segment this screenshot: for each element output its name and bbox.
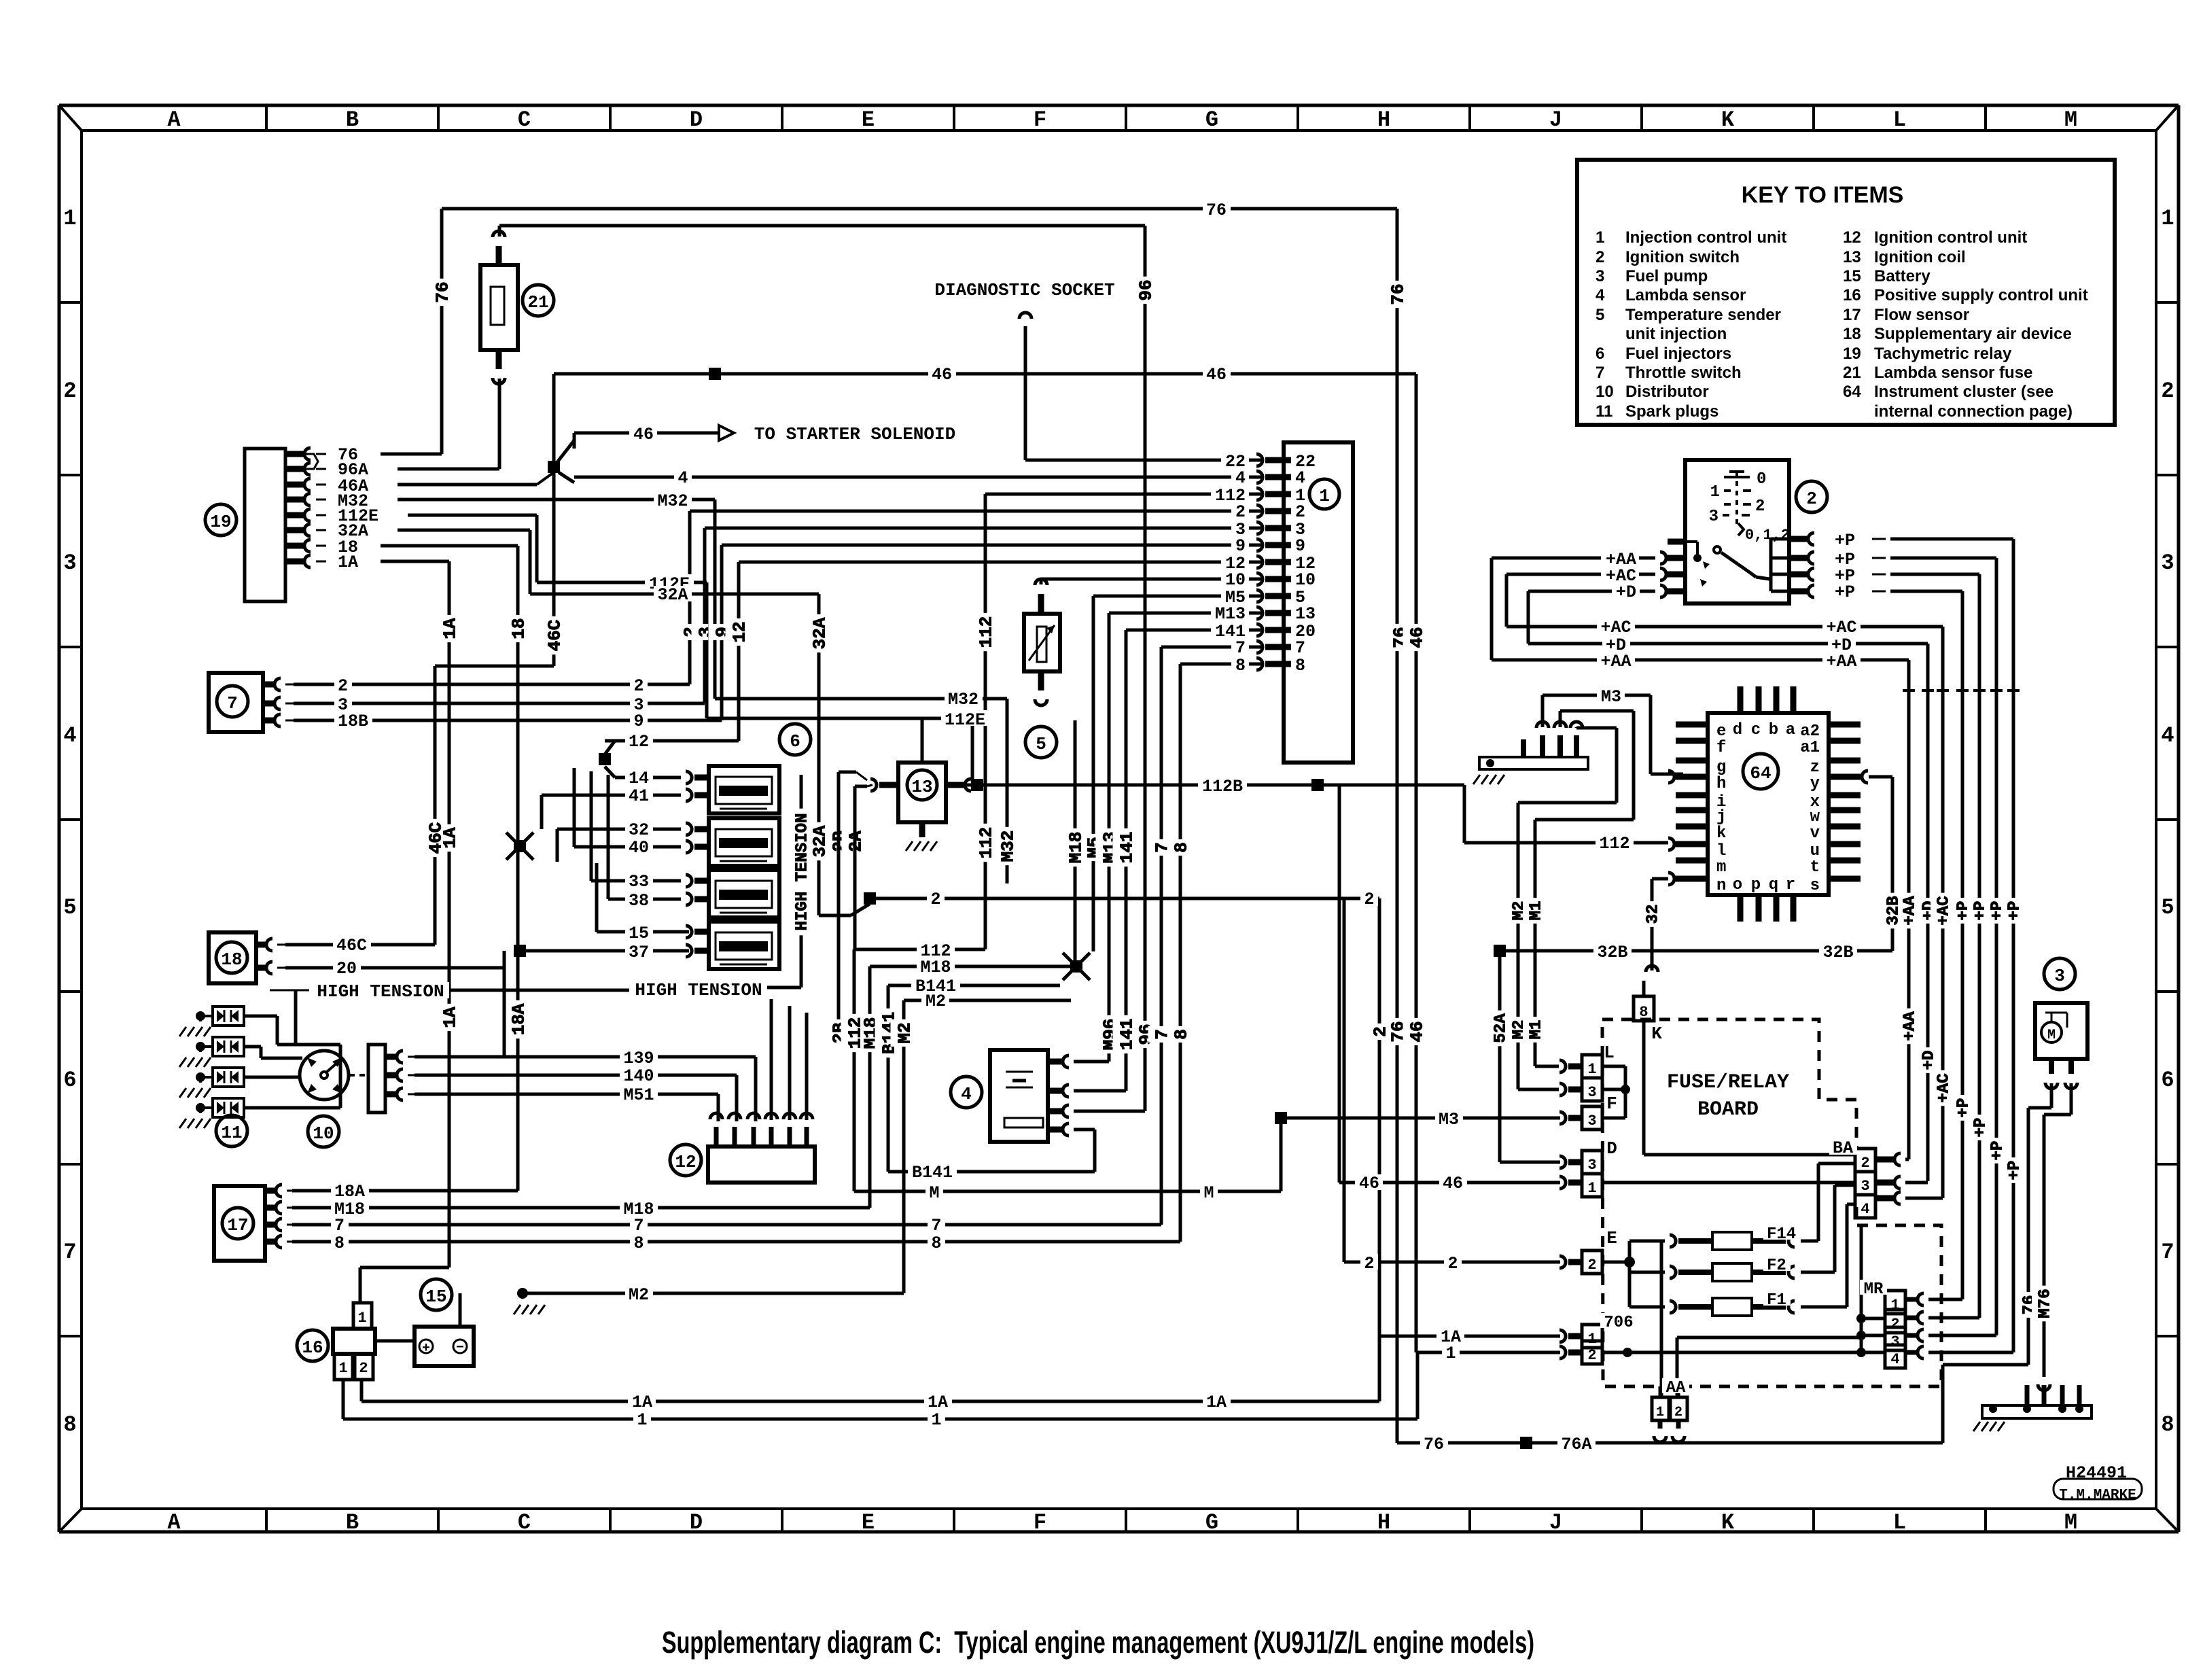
svg-text:3: 3: [1861, 1178, 1869, 1195]
svg-text:r: r: [1786, 876, 1795, 894]
svg-text:Ignition control unit: Ignition control unit: [1874, 228, 2027, 247]
svg-text:+D: +D: [1616, 582, 1636, 602]
svg-text:2: 2: [1587, 1257, 1596, 1274]
svg-text:M51: M51: [623, 1085, 654, 1105]
svg-text:141: 141: [1116, 1019, 1137, 1051]
svg-text:112: 112: [845, 1017, 865, 1049]
svg-text:40: 40: [629, 838, 649, 858]
svg-text:HIGH TENSION: HIGH TENSION: [317, 981, 444, 1002]
svg-text:L: L: [1604, 1043, 1615, 1063]
svg-text:a1: a1: [1800, 739, 1820, 757]
svg-text:−: −: [456, 1340, 464, 1356]
svg-text:2: 2: [359, 1360, 368, 1377]
svg-text:52A: 52A: [1492, 1013, 1511, 1043]
svg-text:M3: M3: [1601, 687, 1621, 707]
svg-text:11: 11: [221, 1123, 242, 1143]
svg-text:M2: M2: [894, 1022, 915, 1043]
svg-text:18A: 18A: [508, 1003, 529, 1035]
svg-text:d: d: [1733, 721, 1742, 739]
svg-text:18: 18: [221, 949, 242, 970]
svg-text:1A: 1A: [440, 618, 460, 640]
svg-text:F2: F2: [1767, 1257, 1786, 1275]
svg-text:M32: M32: [948, 690, 979, 710]
svg-text:n: n: [1716, 877, 1726, 895]
svg-text:Positive supply control unit: Positive supply control unit: [1874, 286, 2088, 304]
svg-text:15: 15: [425, 1287, 446, 1307]
svg-text:Fuel pump: Fuel pump: [1625, 267, 1708, 285]
svg-text:J: J: [1549, 1510, 1562, 1535]
svg-text:F: F: [1034, 1510, 1046, 1535]
svg-text:y: y: [1810, 775, 1820, 793]
svg-text:32: 32: [1644, 905, 1663, 924]
svg-text:6: 6: [790, 731, 800, 752]
svg-text:46: 46: [1206, 365, 1227, 385]
svg-text:11: 11: [1596, 402, 1612, 421]
svg-text:8: 8: [1235, 656, 1246, 676]
svg-text:2: 2: [2161, 379, 2174, 404]
svg-text:F: F: [1034, 107, 1046, 133]
svg-text:a: a: [1786, 721, 1795, 739]
svg-text:5: 5: [2161, 895, 2174, 920]
svg-text:112: 112: [976, 616, 996, 648]
svg-text:1: 1: [637, 1410, 647, 1430]
svg-text:+AC: +AC: [1600, 618, 1631, 637]
svg-text:15: 15: [629, 924, 649, 943]
svg-text:112E: 112E: [945, 710, 985, 730]
svg-text:M: M: [2064, 107, 2077, 133]
svg-text:M: M: [2064, 1510, 2077, 1535]
svg-text:7: 7: [227, 693, 238, 714]
svg-text:C: C: [518, 107, 531, 133]
svg-text:46: 46: [932, 365, 952, 385]
svg-text:Spark plugs: Spark plugs: [1625, 402, 1719, 421]
svg-text:1A: 1A: [928, 1393, 948, 1412]
svg-text:+AA: +AA: [1901, 1011, 1920, 1041]
svg-text:4: 4: [677, 468, 688, 488]
svg-text:8: 8: [931, 1233, 941, 1253]
svg-text:3: 3: [1587, 1157, 1596, 1174]
svg-text:2: 2: [1235, 502, 1246, 522]
svg-text:4: 4: [961, 1084, 972, 1104]
svg-text:112: 112: [1599, 834, 1629, 854]
svg-text:46C: 46C: [336, 936, 367, 956]
svg-text:32A: 32A: [657, 585, 688, 605]
svg-text:2: 2: [1861, 1155, 1869, 1172]
svg-text:46: 46: [1443, 1174, 1463, 1193]
svg-text:f: f: [1716, 739, 1726, 757]
svg-text:3: 3: [1596, 267, 1604, 285]
svg-text:6: 6: [63, 1068, 76, 1093]
svg-text:o: o: [1733, 876, 1742, 894]
svg-text:139: 139: [623, 1049, 654, 1068]
svg-text:64: 64: [1843, 383, 1861, 401]
svg-text:+P: +P: [1835, 531, 1855, 550]
svg-text:2: 2: [930, 890, 940, 909]
svg-text:32B: 32B: [1885, 896, 1903, 925]
svg-text:Lambda sensor: Lambda sensor: [1625, 286, 1746, 304]
svg-text:3: 3: [63, 550, 76, 576]
svg-text:M: M: [1203, 1183, 1214, 1203]
svg-text:2: 2: [1890, 1316, 1899, 1333]
svg-text:E: E: [862, 1510, 875, 1535]
svg-text:2: 2: [633, 676, 644, 696]
svg-text:18B: 18B: [338, 712, 368, 731]
svg-text:19: 19: [1843, 345, 1861, 363]
svg-text:HIGH TENSION: HIGH TENSION: [794, 813, 812, 931]
svg-text:e: e: [1716, 722, 1726, 741]
svg-text:96: 96: [1135, 279, 1156, 300]
svg-text:M1: M1: [1528, 1020, 1546, 1040]
svg-text:4: 4: [1235, 468, 1246, 488]
svg-text:4: 4: [2161, 723, 2174, 748]
svg-text:a2: a2: [1800, 722, 1820, 741]
svg-text:h: h: [1716, 775, 1726, 793]
svg-text:+P: +P: [2006, 901, 2024, 921]
svg-text:j: j: [1716, 808, 1726, 826]
svg-text:1: 1: [1445, 1344, 1456, 1363]
svg-text:3: 3: [1587, 1084, 1596, 1101]
svg-text:7: 7: [334, 1216, 345, 1236]
svg-text:T.M.MARKE: T.M.MARKE: [2059, 1488, 2136, 1503]
svg-text:z: z: [1810, 758, 1820, 777]
svg-text:G: G: [1205, 107, 1218, 133]
svg-text:33: 33: [629, 872, 649, 892]
svg-text:18: 18: [1843, 325, 1861, 343]
svg-text:M2: M2: [926, 992, 946, 1011]
svg-text:1: 1: [2161, 206, 2174, 231]
svg-text:1A: 1A: [632, 1393, 652, 1412]
svg-text:3: 3: [1709, 508, 1719, 526]
svg-text:Ignition switch: Ignition switch: [1625, 248, 1740, 266]
svg-text:7: 7: [931, 1216, 941, 1236]
svg-text:m: m: [1716, 858, 1726, 877]
svg-text:76A: 76A: [1561, 1435, 1591, 1454]
svg-text:2: 2: [1755, 497, 1765, 516]
svg-text:M: M: [2047, 1028, 2056, 1043]
svg-text:76: 76: [432, 281, 453, 302]
svg-text:E: E: [1606, 1228, 1617, 1248]
svg-text:4: 4: [63, 723, 76, 748]
svg-text:p: p: [1751, 876, 1761, 894]
svg-text:KEY TO ITEMS: KEY TO ITEMS: [1742, 182, 1904, 208]
svg-text:M13: M13: [1215, 604, 1246, 624]
svg-text:46: 46: [1407, 627, 1427, 648]
svg-text:46: 46: [1407, 1021, 1427, 1042]
svg-text:k: k: [1716, 824, 1726, 843]
svg-text:Instrument cluster (see: Instrument cluster (see: [1874, 383, 2054, 401]
svg-text:7: 7: [63, 1240, 76, 1265]
svg-text:b: b: [1769, 721, 1778, 739]
svg-text:1: 1: [338, 1360, 347, 1377]
svg-text:16: 16: [302, 1337, 323, 1358]
svg-text:F14: F14: [1767, 1225, 1796, 1244]
svg-text:M3: M3: [1439, 1110, 1459, 1130]
svg-text:46C: 46C: [425, 822, 446, 854]
svg-text:15: 15: [1843, 267, 1861, 285]
svg-text:1: 1: [1587, 1180, 1596, 1197]
svg-text:2: 2: [1364, 890, 1374, 909]
svg-text:76: 76: [1424, 1435, 1444, 1454]
svg-text:10: 10: [1596, 383, 1614, 401]
svg-text:Tachymetric relay: Tachymetric relay: [1874, 345, 2012, 363]
svg-text:C: C: [518, 1510, 531, 1535]
svg-text:6: 6: [2161, 1068, 2174, 1093]
svg-text:TO STARTER SOLENOID: TO STARTER SOLENOID: [754, 424, 955, 444]
svg-text:L: L: [1893, 1510, 1906, 1535]
svg-text:2: 2: [1295, 502, 1305, 522]
svg-text:1: 1: [1656, 1405, 1664, 1420]
svg-text:21: 21: [1843, 364, 1861, 382]
svg-text:+P: +P: [2006, 1161, 2024, 1180]
svg-text:112: 112: [976, 827, 996, 859]
svg-text:J: J: [1549, 107, 1562, 133]
svg-text:1: 1: [1587, 1061, 1596, 1078]
svg-text:6: 6: [1596, 345, 1604, 363]
svg-text:8: 8: [334, 1233, 345, 1253]
svg-text:10: 10: [1225, 570, 1246, 590]
svg-text:3: 3: [2161, 550, 2174, 576]
svg-text:9: 9: [1295, 536, 1305, 556]
svg-text:G: G: [1205, 1510, 1218, 1535]
svg-text:2: 2: [1596, 248, 1604, 266]
svg-text:17: 17: [1843, 306, 1861, 324]
svg-text:1A: 1A: [1206, 1393, 1227, 1412]
svg-text:2: 2: [338, 676, 348, 696]
svg-text:L: L: [1893, 107, 1906, 133]
svg-text:H24491: H24491: [2066, 1463, 2127, 1483]
svg-text:7: 7: [2161, 1240, 2174, 1265]
svg-text:K: K: [1651, 1023, 1662, 1044]
svg-text:D: D: [690, 1510, 703, 1535]
svg-text:u: u: [1810, 842, 1820, 860]
svg-text:2: 2: [1587, 1347, 1596, 1364]
svg-text:16: 16: [1843, 286, 1861, 304]
svg-text:32B: 32B: [1597, 943, 1627, 962]
svg-text:Supplementary diagram C: Typi: Supplementary diagram C: Typical engine …: [662, 1625, 1534, 1660]
svg-text:3: 3: [1890, 1333, 1899, 1350]
svg-text:D: D: [690, 107, 703, 133]
svg-text:7: 7: [1295, 638, 1305, 658]
svg-text:8: 8: [1171, 842, 1191, 853]
svg-text:F: F: [1606, 1093, 1617, 1114]
svg-text:M32: M32: [657, 491, 688, 511]
svg-text:1: 1: [1890, 1297, 1899, 1314]
svg-text:+D: +D: [1920, 1051, 1939, 1070]
svg-text:140: 140: [623, 1066, 654, 1086]
svg-text:+AC: +AC: [1826, 618, 1856, 637]
svg-text:7: 7: [1596, 364, 1604, 382]
svg-text:t: t: [1810, 858, 1820, 877]
svg-text:46C: 46C: [544, 620, 565, 652]
svg-text:E: E: [862, 107, 875, 133]
svg-text:A: A: [167, 107, 181, 133]
svg-text:12: 12: [629, 732, 649, 752]
svg-text:M32: M32: [998, 830, 1018, 862]
svg-text:4: 4: [1295, 468, 1305, 488]
svg-text:Distributor: Distributor: [1625, 383, 1709, 401]
svg-text:+P: +P: [1955, 1098, 1973, 1118]
svg-text:76: 76: [1206, 200, 1227, 220]
svg-text:8: 8: [63, 1412, 76, 1437]
svg-text:141: 141: [1116, 832, 1137, 864]
svg-text:12: 12: [675, 1152, 696, 1172]
svg-text:1: 1: [1587, 1331, 1596, 1348]
svg-text:DIAGNOSTIC SOCKET: DIAGNOSTIC SOCKET: [934, 280, 1114, 300]
svg-text:32A: 32A: [809, 617, 830, 649]
svg-text:+P: +P: [1835, 582, 1855, 602]
svg-text:14: 14: [629, 769, 649, 788]
svg-text:w: w: [1810, 808, 1820, 826]
svg-text:2: 2: [1370, 1026, 1390, 1037]
svg-text:A: A: [167, 1510, 181, 1535]
svg-text:64: 64: [1750, 763, 1771, 784]
svg-text:7: 7: [633, 1216, 644, 1236]
svg-text:10: 10: [313, 1123, 334, 1144]
svg-text:1: 1: [931, 1410, 941, 1430]
svg-text:46: 46: [633, 425, 654, 444]
svg-text:0,1,2: 0,1,2: [1745, 527, 1790, 544]
svg-text:Battery: Battery: [1874, 267, 1931, 285]
svg-text:Throttle switch: Throttle switch: [1625, 364, 1742, 382]
svg-text:1: 1: [1596, 228, 1604, 247]
svg-text:BA: BA: [1833, 1138, 1853, 1158]
svg-text:M: M: [929, 1183, 939, 1203]
svg-text:21: 21: [527, 292, 548, 313]
svg-text:4: 4: [1861, 1201, 1869, 1218]
svg-text:M2: M2: [629, 1285, 649, 1305]
svg-text:+P: +P: [1972, 1118, 1990, 1138]
svg-text:4: 4: [1890, 1351, 1899, 1368]
svg-text:1: 1: [1319, 486, 1330, 506]
svg-text:MR: MR: [1864, 1280, 1884, 1299]
svg-text:5: 5: [1596, 306, 1604, 324]
svg-text:5: 5: [1036, 734, 1046, 754]
svg-text:+D: +D: [1606, 635, 1626, 655]
svg-text:8: 8: [2161, 1412, 2174, 1437]
svg-text:5: 5: [63, 895, 76, 920]
svg-text:Supplementary air device: Supplementary air device: [1874, 325, 2072, 343]
svg-text:12: 12: [1843, 228, 1861, 247]
svg-text:76: 76: [1388, 283, 1408, 304]
svg-text:32B: 32B: [1822, 943, 1853, 962]
svg-text:B: B: [346, 1510, 359, 1535]
svg-text:8: 8: [633, 1233, 644, 1253]
svg-text:2: 2: [1364, 1254, 1374, 1274]
svg-text:3: 3: [2054, 966, 2065, 986]
svg-text:D: D: [1606, 1138, 1617, 1159]
svg-text:18: 18: [508, 618, 529, 639]
svg-text:l: l: [1716, 842, 1726, 860]
svg-text:1: 1: [357, 1310, 366, 1327]
svg-text:38: 38: [629, 891, 649, 911]
svg-text:HIGH TENSION: HIGH TENSION: [635, 980, 762, 1000]
svg-text:Ignition coil: Ignition coil: [1874, 248, 1966, 266]
svg-text:19: 19: [210, 512, 231, 532]
svg-text:13: 13: [911, 777, 932, 797]
svg-text:112B: 112B: [1202, 777, 1243, 797]
svg-text:4: 4: [1596, 286, 1605, 304]
svg-text:37: 37: [629, 943, 649, 962]
svg-text:2: 2: [63, 379, 76, 404]
svg-text:17: 17: [227, 1215, 248, 1236]
svg-text:Fuel injectors: Fuel injectors: [1625, 345, 1731, 363]
svg-text:13: 13: [1843, 248, 1861, 266]
svg-text:K: K: [1721, 1510, 1735, 1535]
svg-text:9: 9: [633, 712, 644, 731]
svg-text:46: 46: [1359, 1174, 1379, 1193]
svg-text:c: c: [1751, 721, 1761, 739]
svg-text:unit injection: unit injection: [1625, 325, 1727, 343]
svg-text:1A: 1A: [338, 553, 358, 572]
svg-text:10: 10: [1295, 570, 1316, 590]
svg-text:1: 1: [63, 206, 76, 231]
svg-text:s: s: [1810, 877, 1820, 895]
svg-text:M18: M18: [1065, 832, 1086, 864]
svg-text:8: 8: [1295, 656, 1305, 676]
svg-text:8: 8: [1171, 1029, 1191, 1040]
svg-text:BOARD: BOARD: [1697, 1098, 1759, 1121]
svg-text:M18: M18: [920, 958, 951, 977]
svg-text:K: K: [1721, 107, 1735, 133]
svg-text:q: q: [1769, 876, 1778, 894]
svg-text:1: 1: [1710, 483, 1720, 502]
svg-text:+D: +D: [1831, 635, 1852, 655]
svg-text:FUSE/RELAY: FUSE/RELAY: [1667, 1071, 1789, 1094]
svg-text:B: B: [346, 107, 359, 133]
svg-text:F1: F1: [1767, 1291, 1786, 1310]
svg-text:41: 41: [629, 786, 649, 806]
svg-text:M76: M76: [2037, 1289, 2055, 1318]
svg-text:13: 13: [1295, 604, 1316, 624]
svg-text:Flow sensor: Flow sensor: [1874, 306, 1969, 324]
svg-text:v: v: [1810, 824, 1820, 843]
svg-text:32: 32: [629, 820, 649, 840]
svg-text:Temperature sender: Temperature sender: [1625, 306, 1781, 324]
svg-text:AA: AA: [1666, 1379, 1686, 1397]
svg-text:0: 0: [1757, 470, 1766, 489]
svg-text:H: H: [1377, 1510, 1390, 1535]
svg-text:12: 12: [729, 621, 750, 642]
svg-text:18A: 18A: [334, 1182, 365, 1202]
svg-text:g: g: [1716, 758, 1726, 777]
svg-text:706: 706: [1604, 1314, 1633, 1332]
svg-text:Lambda sensor fuse: Lambda sensor fuse: [1874, 364, 2032, 382]
svg-text:1A: 1A: [440, 1007, 460, 1028]
svg-text:8: 8: [1639, 1004, 1648, 1021]
svg-text:+: +: [422, 1341, 430, 1357]
svg-text:3: 3: [1587, 1113, 1596, 1130]
svg-text:internal connection page): internal connection page): [1874, 402, 2073, 421]
svg-text:B141: B141: [912, 1163, 953, 1183]
svg-text:+P: +P: [1989, 1141, 2007, 1161]
svg-text:M1: M1: [1528, 901, 1546, 921]
svg-text:H: H: [1377, 107, 1390, 133]
svg-text:2: 2: [1674, 1405, 1682, 1420]
svg-text:Injection control unit: Injection control unit: [1625, 228, 1786, 247]
svg-text:20: 20: [336, 959, 357, 979]
svg-text:2: 2: [1806, 489, 1817, 509]
svg-text:2: 2: [1447, 1254, 1458, 1274]
svg-text:7: 7: [1235, 638, 1246, 658]
svg-text:9: 9: [1235, 536, 1246, 556]
